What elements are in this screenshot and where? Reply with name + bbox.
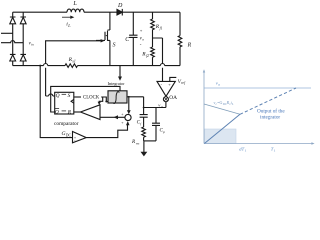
- integrator U3 box: [108, 91, 127, 103]
- wire compensator bottom node: [144, 140, 156, 142]
- svg-text:Q: Q: [56, 93, 60, 99]
- graph: [203, 69, 315, 152]
- svg-text:p: p: [162, 130, 165, 134]
- summer node circle: [125, 114, 131, 120]
- node OA circle: [163, 97, 168, 102]
- curve vc descending line: [204, 104, 240, 114]
- labels circuit: [29, 0, 192, 145]
- svg-text:+: +: [140, 28, 143, 33]
- ground arrow down: [143, 141, 145, 152]
- wire clock to integrator: [101, 97, 108, 102]
- wire clock branch to comparator: [99, 97, 103, 102]
- wire Vref to plus input: [170, 77, 177, 81]
- resistor Rs1: [65, 64, 77, 68]
- svg-text:1: 1: [245, 149, 247, 153]
- flip-flop U1 box: [55, 92, 74, 114]
- resistor Rws: [142, 127, 146, 141]
- inductor L: [67, 9, 84, 12]
- svg-text:S: S: [113, 43, 116, 49]
- svg-text:o: o: [142, 38, 144, 42]
- diode bridge bottom-right: [20, 54, 26, 61]
- wire OA output to node: [165, 95, 167, 97]
- curve va horizontal line: [204, 87, 311, 89]
- svg-text:L: L: [72, 0, 77, 7]
- svg-text:Q: Q: [55, 109, 59, 115]
- svg-text:L: L: [231, 102, 234, 106]
- resistor Rf2: [151, 38, 155, 66]
- wire hop on gate-to-Q wire: [49, 94, 53, 96]
- bridge rectifier left branch: [12, 12, 14, 65]
- svg-text:D: D: [117, 3, 123, 9]
- svg-text:f1: f1: [160, 26, 163, 30]
- wire top rail: [13, 11, 180, 13]
- diode bridge bottom-left: [10, 54, 16, 61]
- svg-text:s1: s1: [72, 59, 75, 63]
- svg-text:Integrator: Integrator: [108, 81, 126, 86]
- capacitor Cp branch: [155, 108, 157, 141]
- wire AC input top: [1, 32, 13, 34]
- svg-text:in: in: [31, 43, 34, 47]
- wire divider tap to op-amp: [153, 38, 163, 81]
- diode bridge top-right: [20, 17, 26, 24]
- svg-text:integrator: integrator: [260, 114, 280, 120]
- wire comparator out to R input: [74, 111, 81, 113]
- svg-text:=G: =G: [217, 100, 222, 105]
- diode bridge top-left: [10, 17, 16, 24]
- transistor S (mosfet): [96, 30, 110, 41]
- wire sense net down to Gdc: [40, 66, 72, 138]
- svg-text:R: R: [187, 43, 192, 49]
- wire Gdc output to summer: [86, 125, 127, 138]
- wire gate net vertical with rail hop: [45, 41, 55, 96]
- svg-text:S: S: [68, 93, 71, 99]
- svg-text:OA: OA: [169, 95, 177, 101]
- wire branch to summer with arrow: [128, 97, 130, 111]
- axis horizontal: [204, 143, 312, 145]
- amplifier Gdc triangle: [73, 132, 87, 143]
- resistor Rf1 branch: [151, 12, 155, 38]
- svg-text:comparator: comparator: [54, 121, 79, 127]
- wire S input stub: [74, 96, 81, 98]
- curve integrator ramp solid: [204, 114, 240, 143]
- svg-text:C: C: [125, 37, 129, 43]
- svg-text:CLOCK: CLOCK: [83, 96, 100, 101]
- current arrow iL: [62, 16, 71, 18]
- svg-text:a: a: [218, 82, 220, 86]
- wire bottom rail: [13, 65, 180, 67]
- wire integrator output: [127, 97, 144, 108]
- capacitor Cf branch: [143, 108, 145, 128]
- capacitor C branch: [132, 12, 134, 65]
- svg-text:R: R: [67, 109, 72, 115]
- shaded area under integrator output: [204, 129, 236, 143]
- bridge rectifier right branch: [22, 12, 24, 65]
- axis vertical: [203, 72, 205, 144]
- wire integrator input arrow from rail: [119, 66, 121, 77]
- diode D: [117, 9, 122, 15]
- wire summer to comparator with arrow: [100, 116, 125, 118]
- curve integrator ramp dashed: [240, 88, 296, 114]
- comparator U2 triangle: [81, 105, 101, 120]
- wire rail hop over divider tap: [160, 63, 164, 65]
- label integral sign: [113, 92, 119, 104]
- svg-text:1: 1: [274, 149, 276, 153]
- wire gate line: [45, 40, 101, 42]
- svg-text:DC: DC: [66, 134, 72, 138]
- op-amp OA triangle: [157, 81, 175, 96]
- wire vm horizontal: [144, 107, 166, 109]
- flip-flop clock wedge: [71, 99, 74, 103]
- svg-text:f2: f2: [146, 54, 149, 58]
- wire Qbar row: [51, 86, 120, 112]
- node rail junction dot: [39, 65, 41, 67]
- wire AC input bottom with hop: [1, 41, 23, 43]
- wire rail hop over gate line: [44, 63, 48, 65]
- mosfet Q drain wire: [109, 12, 111, 30]
- resistor R branch: [178, 12, 182, 65]
